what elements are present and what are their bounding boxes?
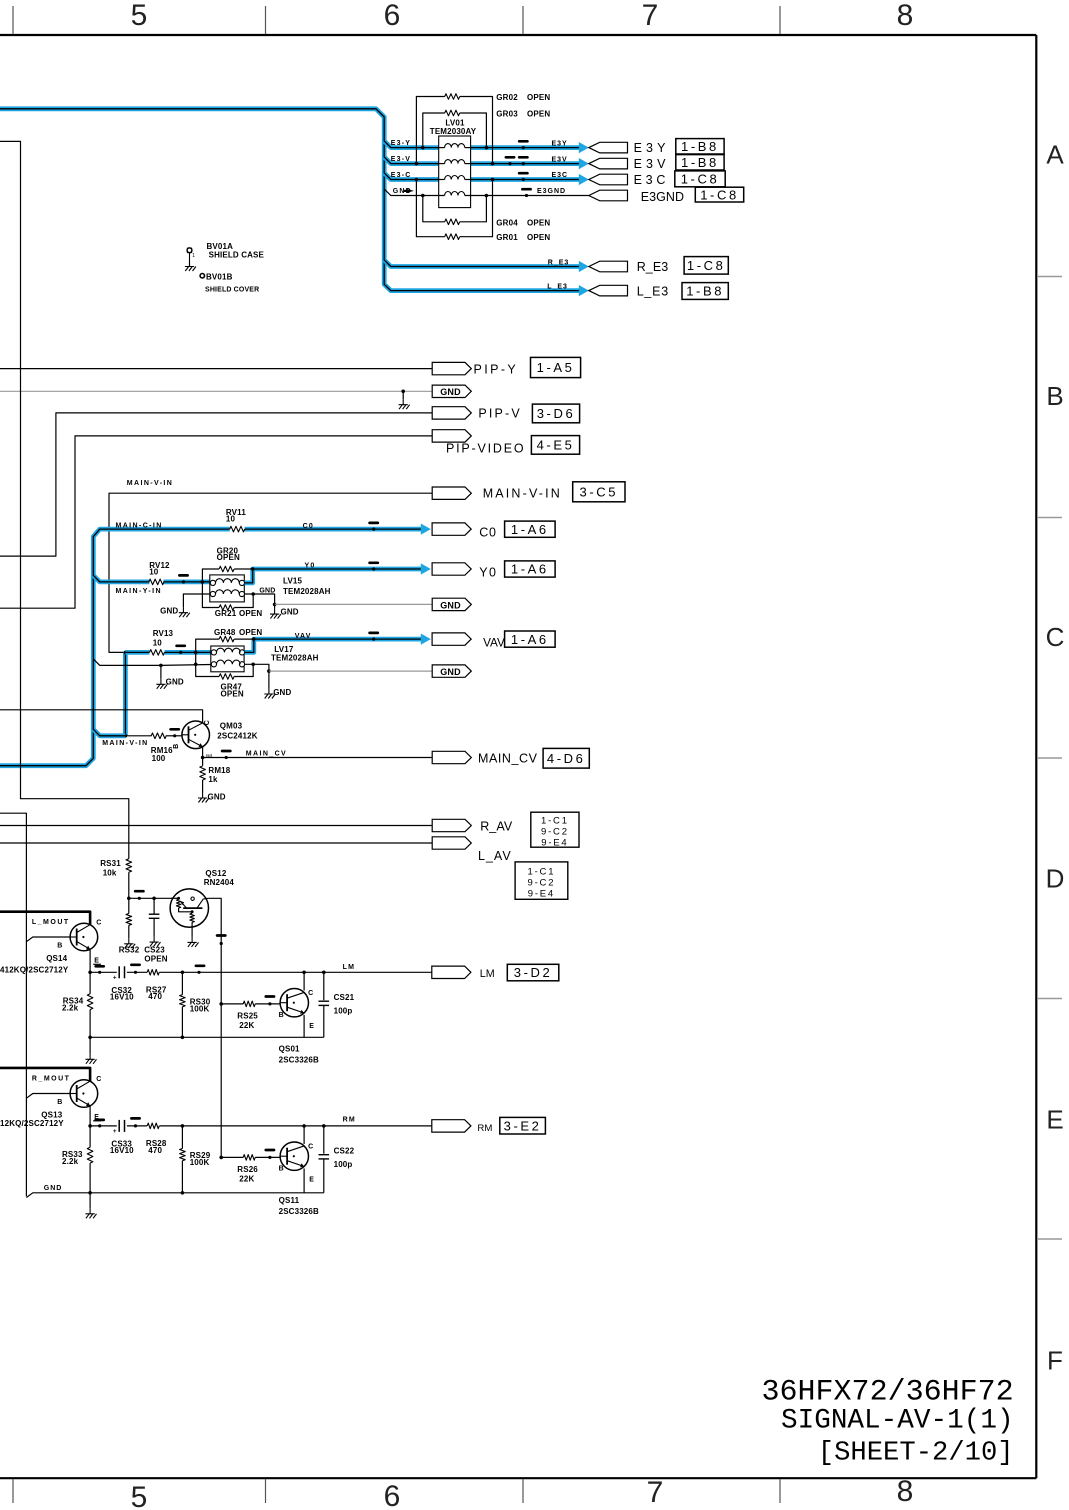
wire L_AV bbox=[0, 842, 432, 844]
svg-text:C0: C0 bbox=[479, 526, 496, 540]
wire MAIN-V-IN to flag bbox=[109, 480, 432, 652]
svg-text:3-D6: 3-D6 bbox=[537, 406, 576, 421]
shield cover BV01B bbox=[200, 272, 259, 293]
wire MAIN-Y-IN branch (blue) bbox=[93, 575, 210, 582]
svg-text:MAIN-V-IN: MAIN-V-IN bbox=[127, 480, 173, 487]
svg-text:1-A5: 1-A5 bbox=[537, 360, 575, 375]
test point on RV13 row bbox=[177, 646, 185, 654]
resistor RS32 bbox=[119, 898, 140, 954]
svg-text:SHIELD COVER: SHIELD COVER bbox=[205, 287, 259, 294]
svg-text:PIP-Y: PIP-Y bbox=[474, 362, 519, 376]
wire MAIN_CV row bbox=[201, 747, 432, 760]
svg-text:1-C8: 1-C8 bbox=[687, 258, 726, 273]
svg-text:RS26: RS26 bbox=[237, 1165, 258, 1174]
svg-text:3-C5: 3-C5 bbox=[580, 484, 619, 499]
test point on C0 bbox=[370, 523, 378, 531]
transistor QM03 2SC2412K bbox=[173, 720, 258, 758]
svg-text:CS22: CS22 bbox=[334, 1147, 355, 1156]
wire LV15 ground side bbox=[183, 594, 432, 607]
wire PIP-V bbox=[0, 413, 432, 556]
wire volume line from page left bbox=[0, 141, 129, 858]
wire RM row (QS13 emitter) bbox=[88, 1106, 432, 1128]
wire QS14 ground rail bbox=[88, 1015, 324, 1054]
svg-text:E: E bbox=[1046, 1105, 1063, 1135]
svg-text:GND: GND bbox=[440, 667, 461, 677]
svg-text:GND: GND bbox=[440, 600, 461, 610]
resistor RV13 bbox=[125, 629, 210, 655]
svg-text:OPEN: OPEN bbox=[527, 218, 550, 227]
connector flag L_E3 bbox=[547, 283, 728, 300]
svg-text:MAIN_CV: MAIN_CV bbox=[478, 751, 538, 765]
connector flag R_AV bbox=[432, 819, 513, 833]
svg-text:5: 5 bbox=[131, 1481, 148, 1510]
svg-text:[SHEET-2/10]: [SHEET-2/10] bbox=[818, 1438, 1014, 1469]
svg-text:470: 470 bbox=[148, 992, 162, 1001]
wire QS12 collector to mute rail bbox=[208, 898, 225, 1004]
ground at LV17 right bbox=[264, 671, 291, 698]
svg-text:22K: 22K bbox=[239, 1021, 254, 1030]
wire LM row (QS14 emitter) bbox=[88, 949, 432, 974]
resistor RS29 100K bbox=[180, 1124, 211, 1193]
svg-text:MAIN-C-IN: MAIN-C-IN bbox=[116, 522, 163, 529]
connector flag PIP-Y bbox=[432, 357, 580, 377]
transistor QS13 bbox=[0, 1076, 102, 1128]
svg-text:1-C8: 1-C8 bbox=[681, 172, 720, 187]
wire LV17 ground side bbox=[93, 659, 432, 679]
resistor RS26 22K bbox=[237, 1155, 258, 1184]
wire MAIN-V-IN bus trunk (blue) bbox=[0, 529, 421, 766]
svg-text:QM03: QM03 bbox=[220, 722, 243, 731]
svg-text:10: 10 bbox=[226, 514, 236, 523]
svg-text:8: 8 bbox=[897, 0, 914, 32]
wire E3-V branch bbox=[384, 157, 579, 164]
svg-text:1-C8: 1-C8 bbox=[700, 187, 739, 202]
svg-text:MAIN-Y-IN: MAIN-Y-IN bbox=[116, 588, 162, 595]
svg-text:RM: RM bbox=[477, 1123, 492, 1134]
svg-text:QS14: QS14 bbox=[46, 954, 67, 963]
inductor LV15 TEM2028AH bbox=[203, 575, 331, 602]
svg-text:R_E3: R_E3 bbox=[637, 260, 669, 274]
wire MAIN-V-IN to QM03 base (blue then black) bbox=[93, 729, 181, 736]
connector flag C0 bbox=[421, 521, 555, 539]
svg-text:E: E bbox=[309, 1023, 314, 1030]
resistor RS33 2.2k bbox=[62, 1126, 93, 1193]
resistor GR47 bbox=[194, 652, 255, 698]
ground below RS32 bbox=[128, 938, 130, 944]
svg-text:Y0: Y0 bbox=[305, 562, 316, 569]
test point on Y0 bbox=[370, 563, 378, 571]
svg-text:1-B8: 1-B8 bbox=[681, 155, 719, 170]
svg-text:10: 10 bbox=[149, 568, 159, 577]
svg-text:7: 7 bbox=[647, 1476, 664, 1509]
wire PIP-Y bbox=[0, 368, 432, 370]
svg-text:OPEN: OPEN bbox=[527, 110, 550, 119]
svg-text:E: E bbox=[94, 958, 99, 965]
wire E3 bus trunk (blue) bbox=[0, 109, 579, 291]
resistor RS31 10k bbox=[100, 859, 131, 899]
wire RS25 row bbox=[219, 997, 280, 1006]
svg-text:R_E3: R_E3 bbox=[548, 259, 570, 266]
ground below RS33 bbox=[89, 1208, 91, 1214]
svg-text:B: B bbox=[173, 744, 180, 749]
svg-text:4-E5: 4-E5 bbox=[537, 438, 575, 453]
capacitor CS33 16V10 bbox=[110, 1120, 134, 1155]
node label GND bbox=[393, 188, 414, 195]
svg-text:GND: GND bbox=[44, 1185, 63, 1192]
svg-text:QS11: QS11 bbox=[279, 1196, 300, 1205]
svg-text:B: B bbox=[57, 1099, 62, 1106]
svg-text:OPEN: OPEN bbox=[144, 955, 167, 964]
svg-text:OPEN: OPEN bbox=[239, 609, 262, 618]
svg-text:A: A bbox=[1046, 140, 1064, 170]
svg-text:E3V: E3V bbox=[634, 157, 670, 171]
svg-text:9-C2: 9-C2 bbox=[541, 826, 569, 837]
svg-text:L_E3: L_E3 bbox=[637, 284, 669, 298]
resistor RS25 22K bbox=[237, 1001, 258, 1030]
svg-text:E3C: E3C bbox=[552, 172, 569, 179]
connector flag R_E3 bbox=[548, 257, 729, 275]
svg-text:Y0: Y0 bbox=[479, 565, 497, 579]
svg-text:B: B bbox=[57, 943, 62, 950]
resistor RV12 bbox=[149, 561, 170, 585]
resistor GR01 bbox=[415, 178, 551, 243]
svg-text:GR03: GR03 bbox=[496, 110, 518, 119]
svg-text:GND: GND bbox=[440, 387, 461, 397]
svg-text:3-E2: 3-E2 bbox=[504, 1118, 542, 1133]
svg-text:1-A6: 1-A6 bbox=[511, 562, 549, 577]
connector flag E3C bbox=[552, 171, 726, 187]
svg-text:+: + bbox=[113, 976, 117, 982]
svg-text:C: C bbox=[96, 920, 101, 927]
svg-text:E3GND: E3GND bbox=[641, 190, 684, 204]
shield case BV01A bbox=[185, 242, 265, 271]
svg-text:9-E4: 9-E4 bbox=[528, 888, 555, 899]
svg-text:MAIN_CV: MAIN_CV bbox=[246, 751, 287, 758]
wire QS13 ground rail bbox=[26, 1169, 323, 1209]
svg-text:VAV: VAV bbox=[483, 637, 505, 650]
resistor GR20 bbox=[201, 547, 255, 584]
svg-text:MAIN-V-IN: MAIN-V-IN bbox=[102, 740, 148, 747]
transistor QS01 2SC3326B bbox=[279, 989, 319, 1065]
svg-text:412KQ/2SC2712Y: 412KQ/2SC2712Y bbox=[0, 966, 69, 975]
svg-text:CS21: CS21 bbox=[334, 993, 355, 1002]
svg-text:E3Y: E3Y bbox=[552, 140, 568, 147]
svg-text:1-B8: 1-B8 bbox=[681, 139, 719, 154]
svg-text:9-E4: 9-E4 bbox=[541, 837, 568, 848]
svg-text:C: C bbox=[1046, 622, 1065, 652]
svg-text:SHIELD CASE: SHIELD CASE bbox=[209, 251, 265, 260]
svg-text:E3GND: E3GND bbox=[537, 188, 566, 195]
svg-text:E3-V: E3-V bbox=[391, 156, 411, 163]
svg-text:6: 6 bbox=[384, 0, 401, 32]
svg-text:2SC3326B: 2SC3326B bbox=[279, 1207, 319, 1216]
connector flag GND (LV17) bbox=[432, 665, 471, 677]
resistor RV11 bbox=[226, 508, 246, 532]
wire E3-Y branch bbox=[384, 141, 579, 148]
svg-text:7: 7 bbox=[642, 0, 659, 32]
wire GND branch (E3GND) bbox=[384, 189, 589, 196]
svg-text:C: C bbox=[96, 1076, 101, 1083]
svg-text:E3Y: E3Y bbox=[634, 141, 670, 155]
svg-text:GR21: GR21 bbox=[215, 609, 237, 618]
connector flag GND (PIP) bbox=[432, 385, 471, 397]
svg-text:CS23: CS23 bbox=[144, 946, 165, 955]
svg-text:GND: GND bbox=[208, 793, 226, 802]
svg-text:B: B bbox=[1046, 381, 1063, 411]
svg-text:B: B bbox=[279, 1012, 284, 1019]
svg-text:8: 8 bbox=[897, 1475, 914, 1508]
svg-text:GND: GND bbox=[160, 607, 178, 616]
resistor RS34 2.2k bbox=[62, 972, 93, 1037]
connector flag VAV bbox=[421, 631, 555, 650]
svg-text:F: F bbox=[1047, 1346, 1063, 1376]
connector flag GND (LV15) bbox=[432, 598, 471, 610]
svg-text:OPEN: OPEN bbox=[217, 553, 240, 562]
svg-text:E3-C: E3-C bbox=[391, 172, 412, 179]
svg-text:OPEN: OPEN bbox=[527, 93, 550, 102]
svg-text:3-D2: 3-D2 bbox=[514, 965, 553, 980]
svg-text:TEM2028AH: TEM2028AH bbox=[283, 587, 331, 596]
svg-text:RS31: RS31 bbox=[100, 859, 121, 868]
wire VAV output (blue) bbox=[245, 639, 422, 652]
wire QS11 collector to RM row bbox=[302, 1124, 306, 1144]
svg-text:100: 100 bbox=[152, 754, 166, 763]
resistor GR48 bbox=[194, 628, 262, 654]
capacitor CS21 100p bbox=[319, 971, 355, 1038]
connector flag Y0 bbox=[421, 561, 555, 580]
svg-text:SIGNAL-AV-1(1): SIGNAL-AV-1(1) bbox=[781, 1405, 1014, 1436]
wire L_MOUT feed bbox=[0, 912, 90, 942]
test point on MAIN-Y-IN bbox=[179, 575, 187, 583]
svg-text:GR01: GR01 bbox=[496, 233, 518, 242]
ground at LV15 left bbox=[160, 607, 190, 618]
resistor RS27 470 bbox=[146, 970, 167, 1002]
resistor GR02 bbox=[415, 93, 551, 165]
ground at LV15 right bbox=[259, 588, 298, 619]
connector flag MAIN-V-IN bbox=[432, 482, 625, 502]
svg-text:GND: GND bbox=[281, 608, 299, 617]
svg-text:PIP-VIDEO: PIP-VIDEO bbox=[446, 442, 525, 456]
svg-text:+: + bbox=[113, 1129, 117, 1135]
svg-text:LM: LM bbox=[480, 968, 495, 980]
svg-text:4-D6: 4-D6 bbox=[547, 751, 586, 766]
svg-text:2.2k: 2.2k bbox=[62, 1004, 79, 1013]
svg-text:10: 10 bbox=[153, 639, 163, 648]
svg-text:GR02: GR02 bbox=[496, 93, 518, 102]
resistor RM16 100 bbox=[151, 733, 173, 763]
svg-text:L_E3: L_E3 bbox=[547, 284, 568, 291]
svg-text:10k: 10k bbox=[103, 869, 117, 878]
svg-text:MAIN-V-IN: MAIN-V-IN bbox=[483, 487, 562, 501]
transistor QS12 RN2404 (digital) bbox=[170, 869, 234, 937]
svg-text:16V10: 16V10 bbox=[110, 993, 134, 1002]
inductor LV17 TEM2028AH bbox=[211, 645, 319, 672]
wire GND (PIP ground, gray) bbox=[0, 390, 432, 392]
svg-text:2SC2412K: 2SC2412K bbox=[217, 732, 257, 741]
capacitor CS23 OPEN bbox=[144, 898, 168, 963]
svg-text:QS01: QS01 bbox=[279, 1045, 300, 1054]
connector flag E3GND bbox=[537, 187, 744, 204]
svg-text:RM: RM bbox=[343, 1117, 356, 1124]
wire PIP-VIDEO bbox=[0, 436, 432, 608]
connector flag E3V bbox=[552, 155, 725, 172]
resistor RM18 1k bbox=[200, 758, 231, 793]
svg-text:C: C bbox=[204, 720, 211, 725]
reference box R_AV bbox=[531, 812, 579, 848]
svg-text:OPEN: OPEN bbox=[239, 628, 262, 637]
svg-text:RN2404: RN2404 bbox=[204, 878, 235, 887]
svg-text:100p: 100p bbox=[334, 1007, 353, 1016]
svg-text:36HFX72/36HF72: 36HFX72/36HF72 bbox=[762, 1375, 1014, 1409]
svg-text:C: C bbox=[308, 990, 313, 997]
svg-text:100K: 100K bbox=[190, 1158, 210, 1167]
svg-text:1: 1 bbox=[192, 253, 195, 259]
connector flag MAIN_CV bbox=[432, 748, 589, 768]
svg-text:2.2k: 2.2k bbox=[62, 1157, 79, 1166]
svg-text:E3-Y: E3-Y bbox=[391, 140, 411, 147]
connector flag RM bbox=[432, 1117, 546, 1134]
ground below QS12 bbox=[191, 937, 193, 943]
svg-text:100K: 100K bbox=[190, 1004, 210, 1013]
svg-text:TEM2030AY: TEM2030AY bbox=[430, 127, 477, 136]
svg-text:1-C1: 1-C1 bbox=[528, 866, 556, 877]
svg-text:OPEN: OPEN bbox=[221, 689, 244, 698]
svg-text:E3C: E3C bbox=[634, 173, 670, 187]
svg-text:12KQ/2SC2712Y: 12KQ/2SC2712Y bbox=[0, 1119, 64, 1128]
wire E3-C branch bbox=[384, 173, 579, 180]
svg-text:1k: 1k bbox=[208, 775, 218, 784]
resistor GR04 bbox=[421, 194, 550, 228]
svg-text:QS12: QS12 bbox=[205, 869, 226, 878]
capacitor CS32 16V10 bbox=[110, 966, 134, 1001]
connector flag LM bbox=[432, 964, 559, 981]
svg-text:RM18: RM18 bbox=[208, 766, 230, 775]
ground at PIP GND wire bbox=[399, 390, 410, 410]
svg-text:OPEN: OPEN bbox=[527, 233, 550, 242]
ground at LV17 left bbox=[156, 678, 184, 689]
svg-text:GND: GND bbox=[166, 678, 184, 687]
svg-text:6: 6 bbox=[384, 1480, 401, 1510]
reference box L_AV bbox=[515, 862, 568, 900]
svg-text:TEM2028AH: TEM2028AH bbox=[271, 654, 319, 663]
svg-text:D: D bbox=[1046, 864, 1065, 894]
svg-text:9-C2: 9-C2 bbox=[528, 877, 556, 888]
resistor RS28 470 bbox=[146, 1123, 167, 1155]
svg-text:VAV: VAV bbox=[295, 633, 312, 640]
transistor QS11 2SC3326B bbox=[279, 1142, 319, 1216]
ground below RM18 bbox=[198, 793, 226, 803]
svg-text:1-A6: 1-A6 bbox=[511, 632, 549, 647]
svg-text:E3V: E3V bbox=[552, 156, 568, 163]
test point on VAV bbox=[370, 633, 378, 641]
svg-text:1-B8: 1-B8 bbox=[686, 284, 724, 299]
wire VAV row input (blue vertical) bbox=[124, 651, 128, 738]
svg-text:LM: LM bbox=[343, 964, 356, 971]
capacitor CS22 100p bbox=[319, 1124, 355, 1193]
svg-text:16V10: 16V10 bbox=[110, 1146, 134, 1155]
svg-text:B: B bbox=[279, 1166, 284, 1173]
svg-text:GND: GND bbox=[273, 688, 291, 697]
svg-text:470: 470 bbox=[148, 1146, 162, 1155]
svg-text:GND: GND bbox=[259, 588, 275, 595]
svg-text:5: 5 bbox=[131, 0, 148, 32]
wire QS01 collector to LM row bbox=[302, 971, 306, 991]
svg-text:RV13: RV13 bbox=[153, 629, 174, 638]
svg-text:BV01B: BV01B bbox=[206, 272, 233, 281]
node QS12 base row bbox=[127, 891, 174, 900]
test point at QM03 emitter bbox=[222, 751, 230, 759]
resistor RS30 100K bbox=[180, 971, 211, 1038]
svg-text:PIP-V: PIP-V bbox=[478, 406, 521, 420]
svg-text:LV15: LV15 bbox=[283, 577, 303, 586]
svg-text:GR48: GR48 bbox=[214, 628, 236, 637]
svg-text:R_MOUT: R_MOUT bbox=[32, 1076, 71, 1083]
svg-text:C: C bbox=[308, 1144, 313, 1151]
svg-text:GR04: GR04 bbox=[496, 218, 518, 227]
svg-text:L_AV: L_AV bbox=[478, 849, 512, 863]
wire input cable branch bbox=[0, 813, 26, 1196]
svg-text:100p: 100p bbox=[334, 1160, 353, 1169]
wire RS26 row bbox=[219, 1150, 280, 1159]
resistor GR21 bbox=[202, 582, 262, 618]
wire QM03 collector feed bbox=[0, 710, 203, 723]
svg-text:E: E bbox=[309, 1177, 314, 1184]
svg-text:22K: 22K bbox=[239, 1175, 254, 1184]
test point marks on E3 rows bbox=[506, 141, 531, 197]
connector flag PIP-VIDEO bbox=[432, 430, 579, 456]
svg-text:1-C1: 1-C1 bbox=[541, 815, 569, 826]
svg-text:R_AV: R_AV bbox=[480, 820, 513, 834]
connector flag E3Y bbox=[552, 139, 725, 156]
connector flag PIP-V bbox=[432, 404, 579, 423]
test point at QM03 base bbox=[171, 729, 179, 737]
svg-text:C0: C0 bbox=[303, 523, 314, 530]
svg-text:L_MOUT: L_MOUT bbox=[32, 919, 70, 926]
svg-text:RS25: RS25 bbox=[237, 1012, 258, 1021]
wire Y0 (blue) bbox=[245, 569, 422, 583]
transistor QS14 bbox=[0, 920, 102, 975]
wire R_AV bbox=[0, 825, 432, 827]
connector flag L_AV bbox=[432, 837, 512, 863]
wire R_MOUT feed bbox=[0, 1068, 90, 1098]
svg-text:2SC3326B: 2SC3326B bbox=[279, 1056, 319, 1065]
wire mute rail lower half bbox=[220, 1004, 222, 1158]
svg-text:1-A6: 1-A6 bbox=[511, 522, 549, 537]
ground below RS34 bbox=[89, 1054, 91, 1060]
resistor GR03 bbox=[421, 110, 550, 150]
inductor LV01 TEM2030AY bbox=[430, 119, 477, 208]
